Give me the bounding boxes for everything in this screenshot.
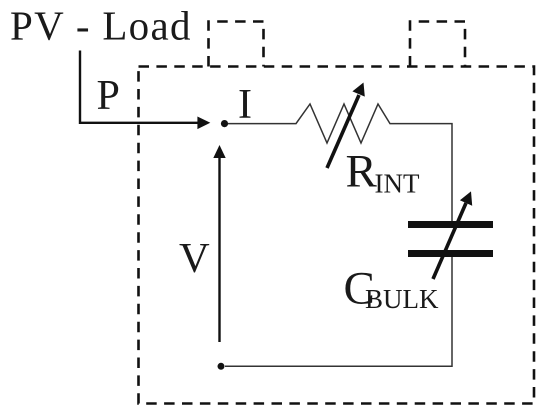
svg-text:V: V <box>179 235 210 282</box>
svg-text:INT: INT <box>375 169 420 199</box>
svg-text:I: I <box>238 82 252 128</box>
svg-text:R: R <box>346 146 378 198</box>
svg-text:P: P <box>97 73 120 119</box>
svg-text:PV - Load: PV - Load <box>10 3 192 49</box>
svg-text:BULK: BULK <box>365 284 439 314</box>
